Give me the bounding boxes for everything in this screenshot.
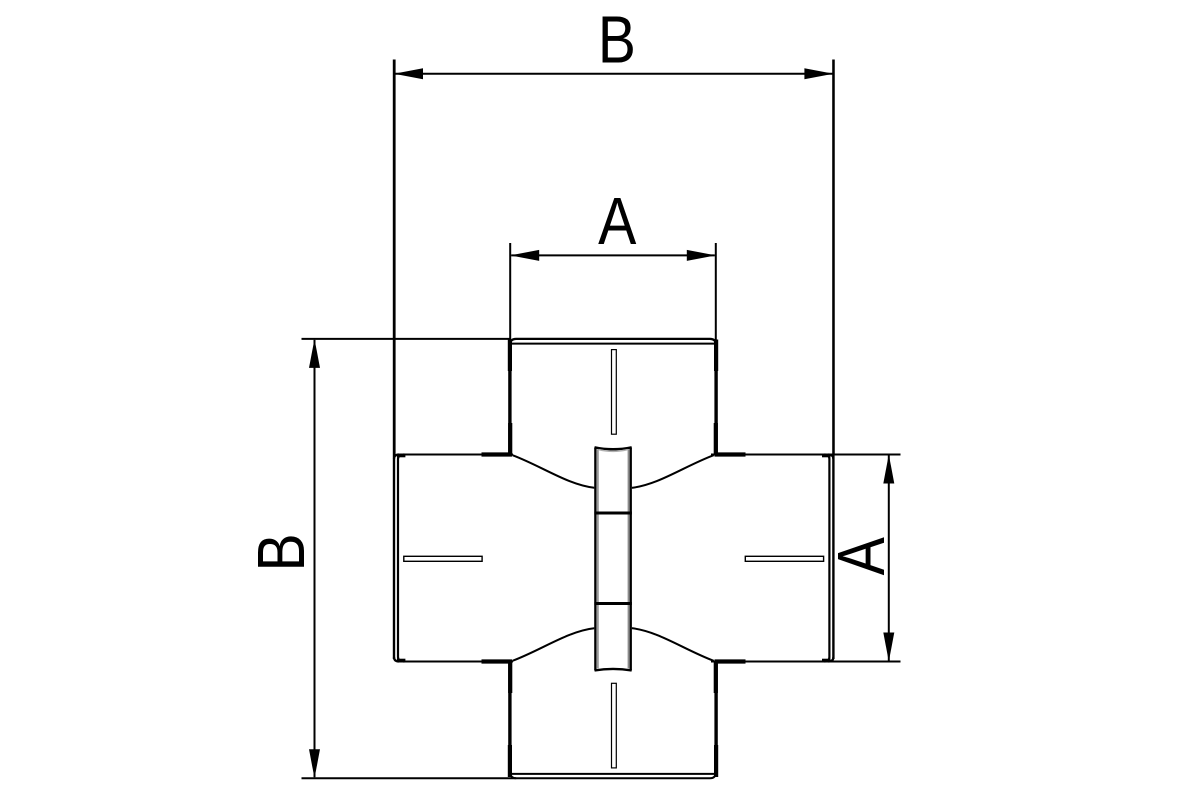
union nut: right inner wall (gray) <box>627 450 629 669</box>
left socket: top edge <box>397 454 513 456</box>
right socket: outer end bottom corner <box>828 657 833 662</box>
top socket: left side thick segment <box>508 423 512 456</box>
body contour: top left curve <box>513 455 596 488</box>
dimension A top: left extension line <box>509 243 511 341</box>
right socket: center mark <box>745 556 823 561</box>
bottom socket: outer end line with right corner (left part belongs to B left extension) <box>510 772 516 778</box>
left socket: outer end bottom corner <box>394 657 399 662</box>
svg-text:A: A <box>825 537 899 576</box>
right socket: top edge thick segment <box>715 452 746 456</box>
bottom socket: right side corner foot <box>714 745 718 777</box>
bottom socket: right side edge <box>714 661 717 777</box>
bottom socket: left side edge <box>508 661 511 777</box>
dimension B left: bottom extension line (merges into bottom socket outer edge) <box>302 772 716 778</box>
union nut: upper division line <box>594 512 632 515</box>
top socket: inner end line <box>512 343 714 345</box>
union nut: left inner wall (gray) <box>597 450 599 669</box>
svg-text:B: B <box>598 3 636 77</box>
right socket: inner end top corner foot <box>822 454 831 457</box>
left socket: bottom edge thick segment <box>482 659 513 663</box>
dimension B left: top extension line <box>302 338 512 340</box>
dimension B left: bottom arrowhead <box>309 749 320 778</box>
right socket: bottom edge thick segment <box>715 659 746 663</box>
right socket: top edge (continues right as A right top extension line) <box>711 454 901 456</box>
union nut: right outer wall <box>630 448 632 671</box>
left socket: inner end top corner foot <box>397 454 406 457</box>
top socket: center mark <box>612 350 617 435</box>
left socket: inner end line <box>398 455 404 662</box>
left socket: top edge thick segment <box>482 452 513 456</box>
left socket: center mark <box>404 556 482 561</box>
left socket: bottom edge <box>397 661 513 663</box>
top socket: right side corner foot <box>714 340 718 372</box>
dimension B top: left extension line (runs down to left socket corner) <box>394 60 396 456</box>
right socket: inner end line <box>825 455 830 662</box>
dimension B top: right extension line (runs down to right socket corner) <box>833 60 835 456</box>
dimension A right: top arrowhead <box>883 455 894 484</box>
left socket: inner end bottom corner foot <box>397 659 406 662</box>
top socket: right side edge <box>714 341 717 456</box>
right socket: bottom edge (continues right as A right bottom extension line) <box>711 661 901 663</box>
top socket: left side edge <box>508 341 511 456</box>
bottom socket: right side thick segment <box>714 661 718 694</box>
bottom socket: inner end line <box>512 773 714 775</box>
right socket: inner end bottom corner foot <box>822 659 831 662</box>
body contour: bottom right curve <box>631 628 714 661</box>
top socket: outer end line with corners <box>510 339 716 345</box>
left socket: outer end line (continuous with B top left extension) <box>393 60 395 660</box>
body contour: bottom left curve <box>513 628 596 661</box>
union nut: lower division line <box>594 602 632 605</box>
dimension A right: dimension line <box>888 456 890 661</box>
union nut: body white fill <box>594 448 632 671</box>
body contour: top right curve <box>631 455 714 488</box>
dimension B left: dimension line <box>314 340 316 777</box>
left socket: outer end top corner <box>394 455 399 460</box>
dimension B top: dimension line <box>395 73 833 75</box>
dimension B left: top arrowhead <box>309 339 320 368</box>
dimension A top: left arrowhead <box>510 250 539 261</box>
svg-text:B: B <box>245 533 319 571</box>
dimension A right: bottom arrowhead <box>883 633 894 662</box>
union nut: top inner edge (gray) <box>599 450 628 452</box>
dimension A top: right arrowhead <box>687 250 716 261</box>
dimension A top: dimension line <box>511 254 715 256</box>
top socket: left side corner foot <box>508 340 512 372</box>
top socket: right side thick segment <box>714 423 718 456</box>
bottom socket: center mark <box>612 683 617 768</box>
bottom socket: left side thick segment <box>508 661 512 694</box>
union nut: bottom end edge (arcs up) <box>595 669 632 671</box>
svg-text:A: A <box>598 185 637 259</box>
dimension A top: right extension line <box>715 243 717 341</box>
dimension B top: right arrowhead <box>804 68 833 79</box>
union nut: top end edge (sags down) <box>595 447 632 449</box>
right socket: outer end line (continuous with B top right extension) <box>832 60 834 660</box>
right socket: outer end top corner <box>828 455 833 460</box>
union nut: left outer wall <box>594 448 596 671</box>
bottom socket: left side corner foot <box>508 745 512 777</box>
dimension B top: left arrowhead <box>394 68 423 79</box>
